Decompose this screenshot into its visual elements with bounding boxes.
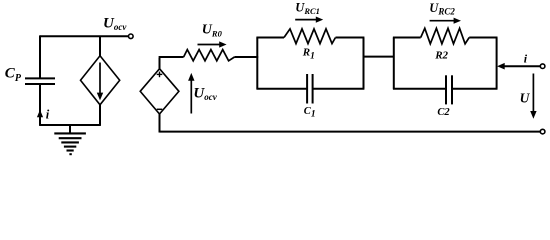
svg-text:i: i [46,107,50,121]
svg-text:Uocv: Uocv [193,86,217,103]
svg-text:R1: R1 [302,47,315,62]
svg-text:C2: C2 [437,107,450,118]
svg-text:URC2: URC2 [429,1,455,17]
svg-text:R2: R2 [434,49,448,61]
svg-text:C1: C1 [304,106,316,120]
svg-text:i: i [524,52,528,66]
svg-text:CP: CP [5,66,22,85]
svg-text:Uocv: Uocv [103,15,127,32]
svg-text:URC1: URC1 [295,1,320,17]
svg-text:U: U [520,91,531,106]
svg-text:UR0: UR0 [202,23,223,39]
